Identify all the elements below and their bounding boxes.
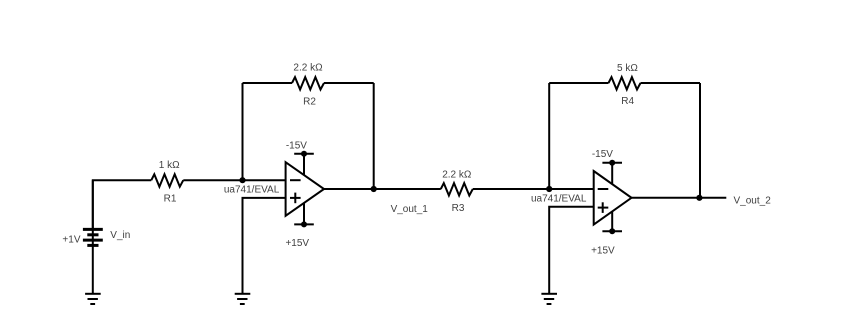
- wire R2 to output column: [324, 82, 374, 84]
- junction node V_out_1: [371, 186, 377, 192]
- op-amp U1 V- bar: [294, 153, 314, 155]
- wire U2 output: [632, 197, 727, 199]
- wire to R2: [243, 82, 293, 84]
- feedback wire left (node A up): [242, 83, 244, 180]
- wire R3 to op-amp U2 inverting input: [473, 188, 594, 190]
- wire U1 noninverting input to ground: [243, 198, 286, 294]
- battery V1 (+1V): [83, 180, 103, 294]
- op-amp U2 power stems: [611, 163, 613, 198]
- svg-text:V_in: V_in: [110, 230, 130, 241]
- op-amp U1 power stems: [303, 154, 305, 190]
- feedback wire right down: [373, 83, 375, 189]
- svg-text:R2: R2: [303, 97, 316, 108]
- svg-text:R1: R1: [164, 194, 177, 205]
- U1 V- pin dot: [301, 151, 307, 157]
- junction node R3/feedback2: [546, 186, 552, 192]
- U2 V+ pin dot: [609, 228, 615, 234]
- op-amp U1 triangle: [286, 162, 324, 216]
- wire U1 output to R3: [324, 188, 441, 190]
- svg-text:+15V: +15V: [591, 246, 615, 257]
- op-amp U2 minus mark: [598, 188, 609, 190]
- ground G3: [541, 294, 557, 304]
- U1 V+ pin dot: [301, 221, 307, 227]
- svg-text:+1V: +1V: [62, 235, 80, 246]
- svg-text:2.2 kΩ: 2.2 kΩ: [293, 63, 323, 74]
- svg-text:1 kΩ: 1 kΩ: [159, 160, 180, 171]
- resistor R3: [441, 183, 473, 195]
- resistor R4: [609, 77, 641, 89]
- junction node R1/feedback: [239, 177, 245, 183]
- wire R4 to output column 2: [641, 82, 701, 84]
- op-amp U2 V+ bar: [602, 230, 622, 232]
- op-amp U1 V+ bar: [294, 223, 314, 225]
- svg-text:R4: R4: [621, 96, 634, 107]
- svg-text:-15V: -15V: [286, 141, 307, 152]
- svg-text:2.2 kΩ: 2.2 kΩ: [442, 170, 472, 181]
- wire battery top to R1: [93, 180, 152, 229]
- svg-text:ua741/EVAL: ua741/EVAL: [531, 193, 587, 204]
- svg-text:R3: R3: [452, 203, 465, 214]
- resistor R2: [292, 77, 324, 89]
- op-amp U2 triangle: [594, 171, 632, 225]
- op-amp U1 minus mark: [290, 179, 301, 181]
- junction node V_out_2: [696, 195, 702, 201]
- wire U2 noninverting input to ground: [549, 207, 594, 294]
- U2 V- pin dot: [609, 160, 615, 166]
- svg-text:V_out_2: V_out_2: [734, 195, 772, 206]
- op-amp U2 V- bar: [602, 162, 622, 164]
- svg-text:+15V: +15V: [285, 238, 309, 249]
- wire to R4: [549, 82, 608, 84]
- feedback wire 2 left up: [548, 83, 550, 189]
- ground G1: [85, 294, 101, 304]
- wire R1 to op-amp U1 inverting input: [183, 179, 285, 181]
- svg-text:ua741/EVAL: ua741/EVAL: [224, 185, 280, 196]
- op-amp U1 plus mark: [290, 193, 301, 204]
- feedback wire 2 right down: [699, 83, 701, 198]
- ground G2: [235, 294, 251, 304]
- svg-text:V_out_1: V_out_1: [391, 204, 429, 215]
- svg-text:5 kΩ: 5 kΩ: [617, 63, 638, 74]
- resistor R1: [151, 174, 183, 186]
- op-amp U2 plus mark: [598, 202, 609, 213]
- svg-text:-15V: -15V: [592, 149, 613, 160]
